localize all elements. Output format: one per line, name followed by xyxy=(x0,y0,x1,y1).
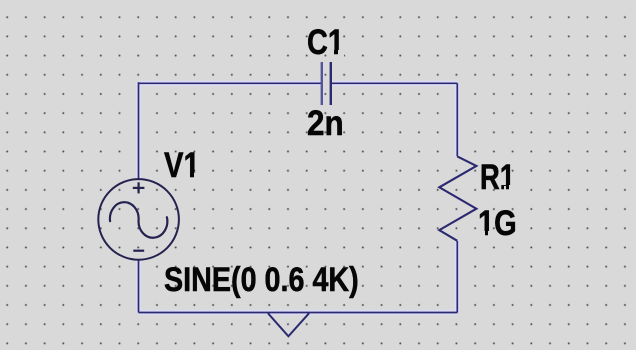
capacitor C1 plates xyxy=(322,62,331,105)
wire bottom xyxy=(139,312,458,314)
wire top-left xyxy=(139,82,322,84)
voltage source V1 circle xyxy=(98,179,179,260)
V1 sine wave xyxy=(110,202,167,238)
label C1 xyxy=(307,25,344,60)
label R1 xyxy=(480,160,515,195)
wire left-upper halo xyxy=(136,82,141,179)
wire left-upper xyxy=(138,82,140,179)
wire top-right halo xyxy=(331,81,457,86)
label 2n xyxy=(307,106,344,141)
V1 minus sign xyxy=(133,250,144,252)
wire left-lower halo xyxy=(136,260,141,313)
label SINE(0 0.6 4K) xyxy=(164,263,359,298)
wire right-upper halo xyxy=(455,83,460,156)
resistor R1 zigzag xyxy=(439,156,476,240)
ground symbol xyxy=(268,313,309,336)
wire bottom halo xyxy=(139,310,458,315)
masks to remove the foot serif of digit 1 glyphs (target font has none) xyxy=(329,50,333,56)
wire right-lower halo xyxy=(455,241,460,313)
V1 plus sign xyxy=(133,182,145,193)
wire top-right xyxy=(331,82,457,84)
wire top-left halo xyxy=(139,81,322,86)
label 1G xyxy=(478,206,517,241)
wire left-lower xyxy=(138,260,140,313)
label V1 xyxy=(164,148,200,183)
wire right-lower xyxy=(456,241,458,313)
wire right-upper xyxy=(456,83,458,156)
